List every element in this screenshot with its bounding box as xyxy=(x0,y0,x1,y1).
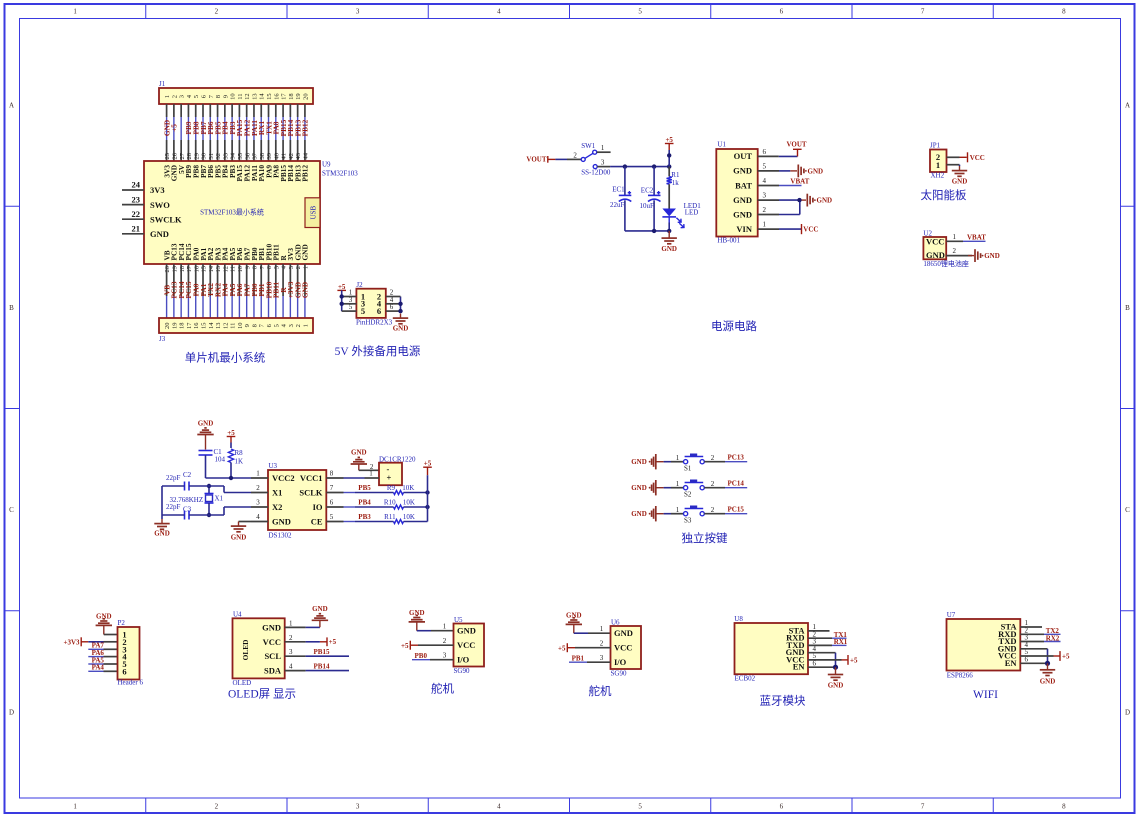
svg-text:5: 5 xyxy=(638,803,642,811)
svg-text:I/O: I/O xyxy=(614,657,627,667)
svg-text:GND: GND xyxy=(301,244,310,260)
svg-text:+5: +5 xyxy=(227,429,235,437)
bluetooth module U8 ECB02 xyxy=(734,615,816,683)
svg-text:B: B xyxy=(1125,304,1130,312)
capacitor EC2 10uF xyxy=(640,167,661,231)
U7 pin5 wire to +5 xyxy=(1020,651,1070,661)
svg-text:GND: GND xyxy=(198,420,214,428)
svg-text:7: 7 xyxy=(921,803,925,811)
svg-text:38: 38 xyxy=(259,153,266,160)
svg-text:3: 3 xyxy=(600,654,604,662)
svg-text:1: 1 xyxy=(256,469,260,477)
svg-text:4: 4 xyxy=(289,663,293,671)
svg-text:GND: GND xyxy=(150,229,169,239)
svg-text:2: 2 xyxy=(289,634,293,642)
svg-text:10K: 10K xyxy=(403,513,415,521)
svg-text:GND: GND xyxy=(733,209,752,219)
svg-text:EC1: EC1 xyxy=(612,186,625,194)
svg-text:GND: GND xyxy=(984,252,1000,260)
svg-text:单片机最小系统: 单片机最小系统 xyxy=(185,351,266,365)
JP1 pin2 wire to VCC xyxy=(947,152,985,162)
svg-text:D: D xyxy=(9,708,14,716)
svg-text:蓝牙模块: 蓝牙模块 xyxy=(760,695,806,708)
svg-text:2: 2 xyxy=(600,640,604,648)
power +5 at U5 pin2 xyxy=(401,641,454,650)
svg-text:X2: X2 xyxy=(272,502,282,512)
independent buttons S1 S2 S3 xyxy=(0,0,1,1)
svg-text:9: 9 xyxy=(244,266,251,269)
svg-text:GND: GND xyxy=(631,458,647,466)
svg-text:5V 外接备用电源: 5V 外接备用电源 xyxy=(335,344,421,358)
svg-text:U1: U1 xyxy=(717,140,726,148)
U4 pin3 net PB15 xyxy=(285,648,349,656)
svg-text:GND: GND xyxy=(952,178,968,186)
svg-text:+: + xyxy=(387,473,392,483)
capacitor EC1 22uF xyxy=(610,167,631,231)
svg-text:3: 3 xyxy=(356,8,360,16)
U1 pin3 pin2 ground wires xyxy=(758,194,832,215)
ground at P2 pin1 xyxy=(96,612,118,634)
svg-text:1: 1 xyxy=(953,233,957,241)
svg-text:+3V3: +3V3 xyxy=(63,638,80,646)
wire bus J1 to U9 with net labels xyxy=(162,104,309,161)
svg-text:PB15: PB15 xyxy=(314,648,330,656)
svg-text:3: 3 xyxy=(288,266,295,269)
svg-text:35: 35 xyxy=(237,153,244,160)
svg-text:22pF: 22pF xyxy=(166,503,181,511)
ground at U6 pin1 xyxy=(566,611,611,633)
ground above battery DC1 xyxy=(351,448,379,471)
svg-text:GND: GND xyxy=(817,197,833,205)
svg-text:14: 14 xyxy=(208,322,215,329)
svg-text:37: 37 xyxy=(252,152,259,159)
svg-text:29: 29 xyxy=(193,153,200,160)
svg-text:2: 2 xyxy=(171,95,178,98)
svg-text:10uF: 10uF xyxy=(640,202,655,210)
svg-text:PB1: PB1 xyxy=(572,655,585,663)
svg-text:24: 24 xyxy=(132,180,141,190)
svg-text:GND: GND xyxy=(272,517,291,527)
svg-text:+5: +5 xyxy=(665,136,673,144)
svg-text:C: C xyxy=(1125,506,1130,514)
svg-text:1: 1 xyxy=(936,160,940,170)
svg-text:ECB02: ECB02 xyxy=(735,675,756,683)
svg-text:S3: S3 xyxy=(684,517,692,525)
svg-text:GND: GND xyxy=(661,245,677,253)
svg-text:GND: GND xyxy=(393,325,409,333)
svg-text:VCC: VCC xyxy=(926,237,944,247)
svg-text:PB5: PB5 xyxy=(358,484,371,492)
svg-text:C2: C2 xyxy=(183,471,192,479)
svg-text:SWCLK: SWCLK xyxy=(150,214,182,224)
wifi module U7 ESP8266 xyxy=(947,611,1029,679)
ground at J2 xyxy=(393,314,409,333)
U4 pin4 net PB14 xyxy=(285,663,349,671)
svg-text:R11: R11 xyxy=(384,513,396,521)
svg-text:SCLK: SCLK xyxy=(299,488,323,498)
svg-text:GND: GND xyxy=(351,448,367,456)
U7 pin2 net TX2 xyxy=(1020,627,1060,635)
ground at U5 pin1 xyxy=(409,609,454,631)
svg-text:R10: R10 xyxy=(384,499,396,507)
svg-text:R1: R1 xyxy=(671,171,680,179)
svg-text:LED: LED xyxy=(685,208,699,216)
svg-text:X1: X1 xyxy=(215,495,224,503)
svg-text:22pF: 22pF xyxy=(166,474,181,482)
svg-text:PB14: PB14 xyxy=(314,663,330,671)
svg-text:2: 2 xyxy=(443,637,447,645)
capacitor C1 104 xyxy=(199,448,252,478)
svg-text:3: 3 xyxy=(179,95,186,98)
U3 right pin numbers xyxy=(326,469,343,521)
rtc chip U3 DS1302 xyxy=(268,462,326,540)
svg-text:1: 1 xyxy=(601,144,605,152)
svg-text:JP1: JP1 xyxy=(930,142,941,150)
svg-text:13: 13 xyxy=(215,323,222,330)
svg-text:7: 7 xyxy=(921,8,925,16)
svg-text:10K: 10K xyxy=(403,499,415,507)
svg-text:EN: EN xyxy=(1005,658,1018,668)
svg-text:2: 2 xyxy=(256,484,260,492)
svg-text:1: 1 xyxy=(302,324,309,327)
JP1 pin1 wire to ground xyxy=(947,165,968,186)
svg-text:PB0: PB0 xyxy=(415,652,428,660)
svg-text:20: 20 xyxy=(164,323,171,330)
svg-text:GND: GND xyxy=(301,282,310,298)
svg-text:1: 1 xyxy=(676,480,680,488)
wire S3 to PC15 xyxy=(704,506,747,514)
svg-text:8: 8 xyxy=(252,266,259,269)
U8 pin3 net RX1 xyxy=(808,638,848,646)
svg-text:+5: +5 xyxy=(1062,653,1070,661)
svg-text:U6: U6 xyxy=(611,618,620,626)
svg-text:16: 16 xyxy=(273,93,280,100)
svg-text:6: 6 xyxy=(780,803,784,811)
svg-text:DS1302: DS1302 xyxy=(269,532,292,540)
U7 pin4 wire down xyxy=(1020,649,1047,664)
svg-text:3: 3 xyxy=(356,803,360,811)
svg-text:6: 6 xyxy=(390,303,394,311)
svg-text:2: 2 xyxy=(295,266,302,269)
svg-text:OUT: OUT xyxy=(734,151,753,161)
svg-text:10: 10 xyxy=(237,323,244,330)
U8 pin6 wire and ground xyxy=(808,665,843,690)
connector J3 xyxy=(159,318,313,343)
svg-text:3: 3 xyxy=(289,648,293,656)
module U1 HB-001 xyxy=(716,140,766,244)
wire S2 to PC14 xyxy=(704,480,747,488)
svg-text:D: D xyxy=(1125,708,1130,716)
svg-text:4: 4 xyxy=(256,513,260,521)
svg-text:5: 5 xyxy=(638,8,642,16)
wire bus U9 to J3 with net labels xyxy=(162,264,309,318)
svg-text:1: 1 xyxy=(676,506,680,514)
svg-text:12: 12 xyxy=(244,93,251,100)
backup battery DC1 CR1220 xyxy=(344,455,417,485)
usb sub-connector on U9 xyxy=(305,198,320,228)
battery holder U2 18650 xyxy=(923,229,969,267)
svg-text:18: 18 xyxy=(288,93,295,100)
svg-text:18: 18 xyxy=(179,323,186,330)
wire from SW1 pin1 xyxy=(597,151,611,153)
svg-text:R9: R9 xyxy=(387,484,396,492)
svg-text:36: 36 xyxy=(244,152,251,159)
svg-text:PB4: PB4 xyxy=(358,499,371,507)
svg-text:独立按键: 独立按键 xyxy=(682,531,728,545)
svg-text:9: 9 xyxy=(222,95,229,98)
svg-text:5: 5 xyxy=(763,163,767,171)
svg-text:RX1: RX1 xyxy=(834,638,848,646)
svg-text:GND: GND xyxy=(154,530,170,538)
svg-text:39: 39 xyxy=(266,153,273,160)
net PB4 resistor R10 10K xyxy=(344,499,430,510)
svg-text:6: 6 xyxy=(266,265,273,269)
svg-text:+5: +5 xyxy=(170,124,179,132)
svg-text:STM32F103最小系统: STM32F103最小系统 xyxy=(200,208,264,217)
U7 pin1 wire xyxy=(1020,626,1042,628)
svg-text:VBAT: VBAT xyxy=(967,234,986,242)
svg-text:13: 13 xyxy=(215,266,222,273)
svg-text:2: 2 xyxy=(763,206,767,214)
svg-text:GND: GND xyxy=(1040,678,1056,686)
wire VOUT to SW1 xyxy=(548,158,581,160)
svg-text:GND: GND xyxy=(808,167,824,175)
svg-text:5: 5 xyxy=(349,303,353,311)
oled module U4 xyxy=(233,611,294,687)
U8 pin2 net TX1 xyxy=(808,631,847,639)
svg-text:6: 6 xyxy=(763,148,767,156)
crystal X1 32.768KHZ xyxy=(170,484,224,517)
svg-text:VCC2: VCC2 xyxy=(272,473,295,483)
svg-text:1: 1 xyxy=(369,469,373,477)
P2 nets PA7 PA6 PA5 PA4 xyxy=(88,642,117,672)
U3 left pin numbers xyxy=(251,469,268,521)
bottom rail of power circuit xyxy=(625,229,672,233)
svg-text:6: 6 xyxy=(377,306,381,316)
connector JP1 XH2 xyxy=(930,142,947,180)
svg-text:5: 5 xyxy=(361,306,365,316)
svg-text:+5: +5 xyxy=(850,657,858,665)
svg-text:SWO: SWO xyxy=(150,200,170,210)
svg-text:6: 6 xyxy=(330,498,334,506)
svg-text:1: 1 xyxy=(763,221,767,229)
svg-text:1: 1 xyxy=(303,266,310,269)
svg-text:16: 16 xyxy=(193,265,200,272)
svg-text:25: 25 xyxy=(164,153,171,160)
svg-text:20: 20 xyxy=(302,93,309,100)
power +5 at U6 pin2 xyxy=(558,643,611,652)
svg-text:11: 11 xyxy=(230,323,237,329)
svg-text:U8: U8 xyxy=(734,615,743,623)
svg-text:30: 30 xyxy=(201,153,208,160)
svg-text:VIN: VIN xyxy=(736,224,752,234)
svg-text:VBAT: VBAT xyxy=(790,178,809,186)
svg-text:8: 8 xyxy=(1062,8,1066,16)
svg-text:3: 3 xyxy=(443,652,447,660)
led LED1 xyxy=(662,202,701,231)
svg-text:1: 1 xyxy=(600,625,604,633)
ground at U3 pin4 xyxy=(231,522,251,542)
svg-text:OLED: OLED xyxy=(233,679,252,687)
net PB1 at U6 pin3 xyxy=(569,655,611,663)
svg-text:GND: GND xyxy=(733,195,752,205)
svg-text:6: 6 xyxy=(122,666,126,676)
svg-text:VCC: VCC xyxy=(614,643,632,653)
svg-text:4: 4 xyxy=(281,265,288,269)
svg-text:EC2: EC2 xyxy=(641,187,654,195)
J2 right wires and junctions xyxy=(386,289,403,314)
svg-text:21: 21 xyxy=(132,224,141,234)
svg-text:S1: S1 xyxy=(684,465,692,473)
svg-text:1k: 1k xyxy=(672,179,680,187)
svg-text:13: 13 xyxy=(251,93,258,100)
svg-text:VCC: VCC xyxy=(457,640,475,650)
svg-text:VCC: VCC xyxy=(803,226,818,234)
power +5 symbol at J2 xyxy=(337,283,346,297)
svg-text:VOUT: VOUT xyxy=(526,155,546,163)
capacitor C3 22pF xyxy=(162,503,251,520)
power +5 at R8 xyxy=(227,429,236,448)
svg-text:10: 10 xyxy=(237,266,244,273)
net PB5 resistor R9 10K xyxy=(344,484,430,495)
svg-text:X1: X1 xyxy=(272,488,282,498)
svg-text:+5: +5 xyxy=(401,642,409,650)
svg-text:18: 18 xyxy=(179,266,186,273)
svg-text:SG90: SG90 xyxy=(454,667,470,675)
svg-text:GND: GND xyxy=(96,612,112,620)
U1 pin4 wire VBAT xyxy=(758,178,810,186)
svg-text:1: 1 xyxy=(289,619,293,627)
svg-text:26: 26 xyxy=(171,152,178,159)
svg-text:EN: EN xyxy=(793,662,806,672)
svg-text:GND: GND xyxy=(631,510,647,518)
svg-text:J3: J3 xyxy=(159,335,166,343)
svg-text:17: 17 xyxy=(186,265,193,272)
svg-text:SG90: SG90 xyxy=(611,670,627,678)
svg-text:U3: U3 xyxy=(269,462,278,470)
ground above C1 xyxy=(197,420,213,450)
U1 pin1 wire to VCC port xyxy=(758,224,819,234)
svg-text:PB12: PB12 xyxy=(301,165,310,182)
button S1 xyxy=(664,454,715,473)
U8 pin4 wire down xyxy=(808,653,836,668)
svg-text:PA4: PA4 xyxy=(92,664,105,672)
capacitor C2 22pF xyxy=(162,471,251,493)
svg-text:J1: J1 xyxy=(159,80,166,88)
svg-text:12: 12 xyxy=(222,266,229,273)
svg-text:GND: GND xyxy=(231,534,247,542)
svg-text:U5: U5 xyxy=(454,616,463,624)
connector J2 PinHDR2X3 xyxy=(356,281,393,327)
svg-text:10: 10 xyxy=(230,93,237,100)
svg-text:GND: GND xyxy=(631,484,647,492)
net PB0 at U5 pin3 xyxy=(412,652,454,660)
svg-text:3: 3 xyxy=(288,324,295,327)
svg-text:S2: S2 xyxy=(684,491,692,499)
svg-text:CE: CE xyxy=(311,517,323,527)
net PB3 resistor R11 10K xyxy=(344,513,428,524)
svg-text:15: 15 xyxy=(201,266,208,273)
svg-text:42: 42 xyxy=(288,153,295,160)
svg-text:3: 3 xyxy=(763,192,767,200)
connector J1 xyxy=(159,80,313,104)
wire SW1 pin3 to +5 rail xyxy=(597,164,671,168)
svg-text:U7: U7 xyxy=(947,611,956,619)
U4 pin1 wire to ground above xyxy=(285,605,328,627)
svg-text:A: A xyxy=(1125,102,1130,110)
svg-text:XH2: XH2 xyxy=(931,172,945,180)
svg-text:SCL: SCL xyxy=(264,651,281,661)
svg-text:5: 5 xyxy=(273,324,280,327)
svg-text:U9: U9 xyxy=(322,161,331,169)
servo module U5 SG90 xyxy=(443,616,484,675)
svg-text:22: 22 xyxy=(132,209,141,219)
svg-text:1K: 1K xyxy=(235,458,244,466)
svg-text:31: 31 xyxy=(208,153,215,160)
U7 pin3 net RX2 xyxy=(1020,634,1060,642)
svg-text:18650锂电池座: 18650锂电池座 xyxy=(923,259,969,268)
svg-text:+5: +5 xyxy=(329,638,337,646)
svg-text:16: 16 xyxy=(193,322,200,329)
svg-text:9: 9 xyxy=(244,324,251,327)
svg-text:PB3: PB3 xyxy=(358,513,371,521)
svg-text:14: 14 xyxy=(259,93,266,100)
svg-text:GND: GND xyxy=(262,622,281,632)
svg-text:1: 1 xyxy=(443,623,447,631)
button S3 xyxy=(664,506,715,525)
svg-text:PinHDR2X3: PinHDR2X3 xyxy=(356,319,393,327)
svg-text:17: 17 xyxy=(186,322,193,329)
svg-text:4: 4 xyxy=(763,177,767,185)
power +5 right rail of DS1302 xyxy=(423,460,432,522)
svg-text:VCC: VCC xyxy=(970,154,985,162)
svg-text:7: 7 xyxy=(330,484,334,492)
mcu module U9 STM32F103 xyxy=(144,161,358,265)
U1 pin6 wire to VOUT port xyxy=(758,140,807,156)
svg-text:28: 28 xyxy=(186,153,193,160)
svg-text:GND: GND xyxy=(409,609,425,617)
svg-text:USB: USB xyxy=(309,205,317,219)
svg-text:舵机: 舵机 xyxy=(431,682,454,696)
ground at S3 xyxy=(631,506,663,521)
U4 pin2 wire to +5 xyxy=(285,637,337,646)
svg-text:HB-001: HB-001 xyxy=(717,237,740,245)
svg-text:1: 1 xyxy=(164,95,171,98)
svg-text:5: 5 xyxy=(330,513,334,521)
svg-text:舵机: 舵机 xyxy=(589,684,612,698)
svg-text:J2: J2 xyxy=(356,281,363,289)
svg-text:GND: GND xyxy=(566,611,582,619)
svg-text:2: 2 xyxy=(215,803,219,811)
U8 pin5 wire to +5 xyxy=(808,655,858,665)
svg-text:VOUT: VOUT xyxy=(786,140,806,148)
svg-text:14: 14 xyxy=(208,265,215,272)
svg-text:20: 20 xyxy=(164,266,171,273)
ground at S2 xyxy=(631,480,663,495)
svg-text:SDA: SDA xyxy=(264,666,282,676)
svg-text:+5: +5 xyxy=(424,460,432,468)
svg-text:PB12: PB12 xyxy=(301,119,310,136)
svg-text:I/O: I/O xyxy=(457,655,470,665)
svg-text:GND: GND xyxy=(457,626,476,636)
svg-text:3: 3 xyxy=(256,498,260,506)
svg-text:43: 43 xyxy=(295,153,302,160)
resistor R1 1k xyxy=(667,167,680,209)
ground at S1 xyxy=(631,454,663,469)
svg-text:BAT: BAT xyxy=(735,180,752,190)
svg-text:VCC1: VCC1 xyxy=(300,473,323,483)
svg-text:1: 1 xyxy=(73,803,77,811)
